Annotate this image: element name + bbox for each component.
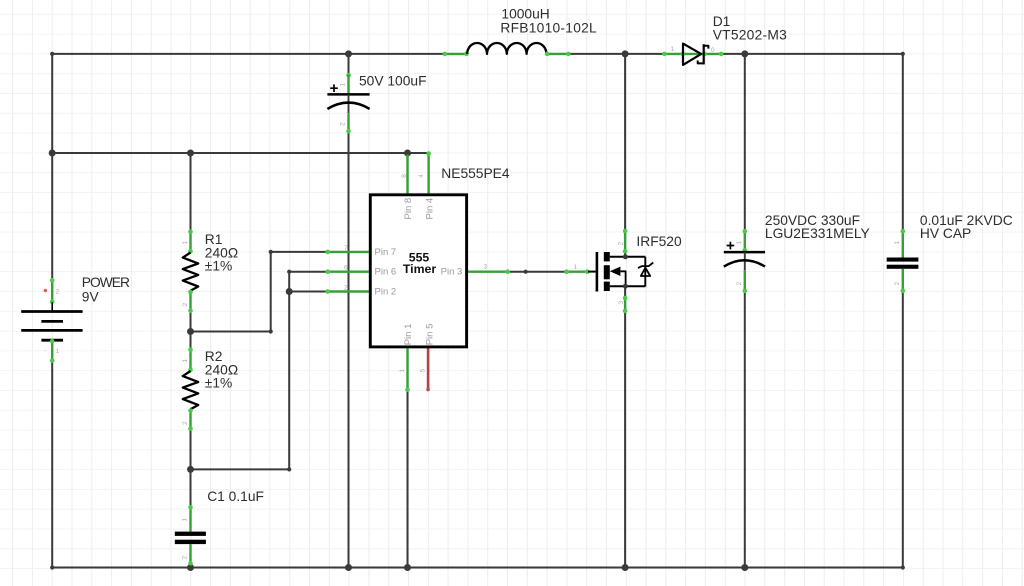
svg-text:±1%: ±1% (205, 259, 233, 274)
svg-text:Pin 8: Pin 8 (403, 198, 414, 220)
svg-text:LGU2E331MELY: LGU2E331MELY (765, 226, 870, 241)
junction bottom rail source (622, 564, 629, 571)
wire R1 to R2 link (190, 312, 192, 350)
svg-text:C1 0.1uF: C1 0.1uF (207, 489, 264, 504)
node pin6 wire end (287, 270, 291, 274)
svg-text:NE555PE4: NE555PE4 (441, 166, 510, 181)
svg-text:1: 1 (340, 83, 347, 87)
svg-text:Pin 4: Pin 4 (424, 198, 435, 220)
svg-text:2: 2 (182, 303, 189, 307)
resistor R2 240 ohm (182, 348, 198, 431)
svg-text:Timer: Timer (403, 262, 436, 276)
svg-text:7: 7 (344, 245, 348, 252)
svg-text:2: 2 (736, 282, 743, 286)
svg-text:3: 3 (618, 301, 625, 305)
node pin6/C1 corner (287, 467, 291, 471)
junction R1-R2 node (187, 328, 194, 335)
svg-text:Pin 1: Pin 1 (403, 324, 414, 346)
svg-text:0: 0 (711, 47, 715, 54)
wire 330uF cap bottom (744, 292, 746, 568)
svg-text:2: 2 (618, 242, 625, 246)
junction MOSFET source node (623, 284, 628, 289)
wire C1 row connector (191, 468, 290, 470)
junction second rail left (49, 150, 56, 157)
wire top-left corner and left rail (52, 54, 444, 280)
svg-text:2: 2 (894, 282, 901, 286)
node top-right corner (901, 52, 905, 56)
svg-text:2: 2 (56, 289, 60, 296)
junction second rail pin8 (404, 150, 411, 157)
svg-text:3: 3 (484, 264, 488, 271)
junction bottom rail 330uF (741, 564, 748, 571)
wire C1 bottom stub (190, 564, 192, 568)
svg-text:Pin 2: Pin 2 (375, 287, 397, 298)
svg-text:POWER: POWER (82, 275, 130, 290)
svg-text:1: 1 (399, 369, 406, 373)
junction pin2 tap (286, 288, 293, 295)
wire top rail right segment and right rail down (722, 54, 903, 231)
junction 100uF top rail (345, 50, 352, 57)
svg-text:1: 1 (574, 264, 578, 271)
wire 555 pin1 to bottom rail (407, 390, 409, 568)
svg-text:4: 4 (418, 174, 425, 178)
svg-text:Pin 5: Pin 5 (424, 324, 435, 346)
wire battery negative to bottom rail (51, 361, 53, 567)
svg-text:-: - (44, 348, 46, 355)
wire second rail (V+ net) (52, 152, 428, 154)
junction R2-C1 node (187, 466, 194, 473)
diode D1 VT5202-M3 (662, 44, 723, 65)
capacitor C3 250VDC 330uF electrolytic (724, 229, 765, 293)
svg-text:2: 2 (340, 122, 347, 126)
svg-text:RFB1010-102L: RFB1010-102L (500, 21, 597, 36)
svg-text:1: 1 (56, 348, 60, 355)
svg-text:8: 8 (401, 174, 408, 178)
junction bottom rail pin1 (404, 564, 411, 571)
svg-text:6: 6 (344, 265, 348, 272)
junction 330uF top rail (741, 50, 748, 57)
capacitor C2 50V 100uF electrolytic (327, 54, 369, 134)
wire MOSFET source stub (624, 287, 626, 298)
wire MOSFET drain to top rail (624, 54, 626, 230)
transistor Q1 IRF520 N-MOSFET (564, 229, 653, 314)
wire MOSFET source to bottom rail (624, 312, 626, 568)
svg-text:Pin 7: Pin 7 (375, 247, 397, 258)
capacitor C1 0.1uF (175, 505, 206, 566)
svg-text:IRF520: IRF520 (636, 234, 682, 249)
svg-text:VT5202-M3: VT5202-M3 (713, 27, 787, 42)
node bottom-right end (901, 565, 905, 569)
resistor R1 240 ohm (182, 229, 198, 313)
svg-text:Pin 6: Pin 6 (375, 267, 397, 278)
wire MOSFET drain stub (624, 252, 626, 257)
svg-text:1: 1 (736, 241, 743, 245)
wire right rail below HV cap (902, 292, 904, 568)
inductor L1 1000uH (443, 43, 571, 56)
svg-text:HV CAP: HV CAP (920, 226, 971, 241)
battery BAT1 POWER 9V (21, 278, 82, 363)
svg-text:1: 1 (894, 241, 901, 245)
svg-text:Pin 3: Pin 3 (441, 267, 463, 278)
wire inductor to diode (569, 53, 664, 55)
svg-text:9V: 9V (82, 289, 100, 304)
svg-text:50V 100uF: 50V 100uF (359, 73, 427, 88)
svg-text:2: 2 (344, 284, 348, 291)
wire R2 to C1 (190, 429, 192, 506)
wire 100uF cap bottom to bottom rail (348, 132, 350, 568)
wire 330uF cap top (744, 54, 746, 231)
node pin7 wire corner (269, 250, 273, 254)
capacitor C4 0.01uF 2KVDC HV CAP (887, 229, 919, 293)
node pin3 wire bend (524, 270, 528, 274)
junction second rail R1 (187, 150, 194, 157)
wire pin7 connector (191, 252, 328, 332)
svg-text:1: 1 (182, 241, 189, 245)
svg-text:1: 1 (671, 46, 675, 53)
junction MOSFET drain node (623, 254, 628, 259)
svg-text:2: 2 (182, 421, 189, 425)
junction drain top rail (622, 50, 629, 57)
svg-text:1000uH: 1000uH (501, 6, 549, 21)
svg-text:±1%: ±1% (205, 376, 233, 391)
node top-left corner (50, 52, 54, 56)
node bottom-left end (50, 565, 54, 569)
svg-text:5: 5 (420, 369, 427, 373)
svg-text:2: 2 (182, 556, 189, 560)
wire pin2 connector (289, 291, 327, 293)
wire pin6 connector (289, 272, 327, 470)
junction bottom rail 100uF (345, 564, 352, 571)
svg-text:1: 1 (182, 518, 189, 522)
node pin7 wire end (269, 329, 273, 333)
wire R1 branch from second rail (190, 153, 192, 231)
op-amp U1 NE555PE4 555 timer (325, 151, 510, 392)
svg-text:1: 1 (182, 359, 189, 363)
wire 555 pin3 to MOSFET gate (508, 271, 565, 273)
junction bottom rail C1 (187, 564, 194, 571)
wire bottom rail (52, 567, 903, 569)
